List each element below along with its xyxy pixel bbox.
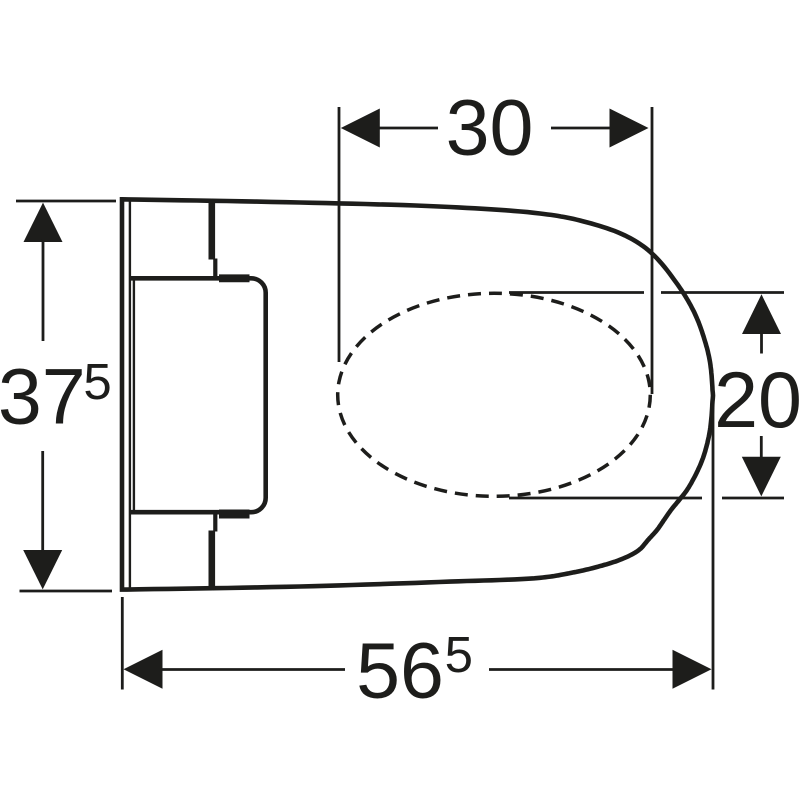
dimension 37.5: tick top [16, 200, 116, 203]
bowl opening (dashed ellipse) [338, 293, 651, 496]
dimension 20: arrow up [742, 294, 781, 334]
dimension 20: tick bottom right segment [722, 497, 784, 500]
dimension 56.5: arrow left [124, 650, 163, 689]
dimension 20: line upper [760, 331, 763, 354]
toilet outline (top view) [122, 199, 713, 589]
dimension 30: arrow left [341, 109, 380, 148]
svg-text:30: 30 [446, 83, 534, 172]
top bracket right edge [209, 201, 216, 260]
dimension 30: line left [378, 127, 438, 130]
dimension 20: tick top right segment [661, 291, 784, 294]
dimension 56.5: line left [161, 668, 345, 671]
bottom bracket right edge [209, 531, 216, 590]
svg-text:37: 37 [0, 352, 86, 441]
mounting plate left edge (thin) [133, 279, 135, 512]
dimension 37.5: arrow down [23, 550, 62, 589]
dimension 30: extension line left [338, 107, 341, 362]
dimension 37.5: tick bottom [20, 590, 113, 593]
dimension 30: line right [551, 127, 611, 130]
dimension 20: tick bottom left segment [509, 497, 702, 500]
dimension 56.5: line right [489, 668, 673, 671]
svg-text:5: 5 [445, 626, 473, 683]
dimension 56.5: extension line right [712, 396, 715, 690]
svg-text:56: 56 [356, 626, 444, 715]
dimension 20: arrow down [742, 457, 781, 497]
dimension 30: arrow right [610, 109, 649, 148]
bottom bracket nub [213, 514, 217, 532]
top bracket nub [213, 259, 217, 278]
dimension 56.5: arrow right [673, 650, 712, 689]
svg-text:5: 5 [83, 353, 111, 410]
svg-text:20: 20 [714, 355, 800, 444]
dimension 20: tick top left segment [509, 291, 644, 294]
dimension 37.5: line upper [42, 239, 45, 341]
mounting plate inner face line [129, 202, 131, 589]
dimension 20: line lower [760, 436, 763, 459]
dimension 30: extension line right [651, 107, 654, 394]
hinge boss top (bold) [219, 274, 250, 282]
central plate outline [131, 278, 266, 512]
dimension 37.5: line lower [41, 451, 44, 552]
dimension 37.5: arrow up [24, 203, 63, 242]
dimension 56.5: extension line left [121, 597, 124, 690]
hinge boss bottom (bold) [219, 510, 250, 519]
